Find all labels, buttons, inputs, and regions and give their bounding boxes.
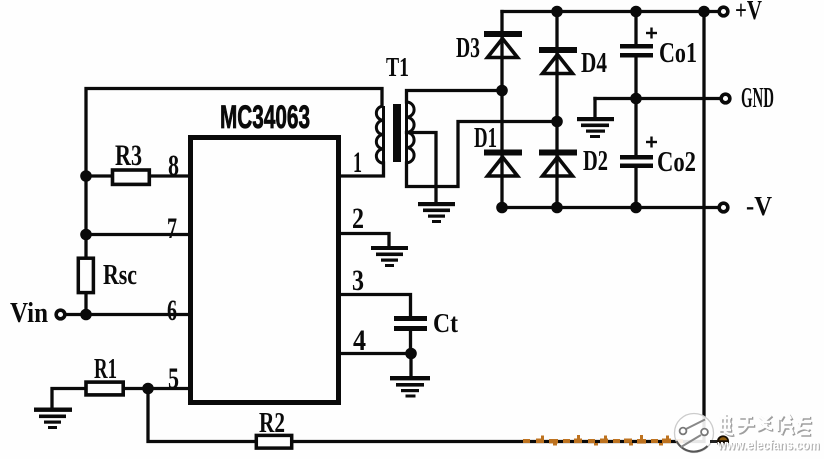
capacitor Co2 plus sign: [646, 137, 657, 148]
node junction Vin: [80, 309, 92, 321]
terminal +V: [719, 7, 728, 16]
svg-text:Ct: Ct: [433, 308, 458, 338]
wire pin8 lead left: [86, 174, 112, 177]
wire pin2 to ground: [339, 234, 389, 248]
node junction pin4 Ct: [405, 348, 417, 360]
wire Co1 top lead: [634, 12, 637, 45]
capacitor Ct: [394, 316, 427, 331]
svg-text:2: 2: [352, 202, 364, 235]
capacitor Co1: [620, 44, 653, 58]
diode D3: [484, 31, 522, 58]
wire D4 D2 column: [555, 12, 558, 208]
svg-text:3: 3: [352, 264, 364, 297]
wire pin4: [339, 352, 411, 355]
svg-text:R3: R3: [115, 139, 142, 172]
wire pin1 to primary: [339, 163, 384, 176]
transformer T1 primary winding: [376, 106, 383, 163]
svg-text:MC34063: MC34063: [220, 99, 310, 135]
node junction Co1 GND: [630, 93, 642, 105]
resistor R3: [113, 170, 150, 184]
svg-text:D1: D1: [474, 122, 497, 154]
watermark text elecfans chinese: [720, 415, 812, 435]
svg-text:Co1: Co1: [659, 38, 697, 69]
wire pin3 to Ct: [339, 295, 411, 317]
svg-text:5: 5: [168, 362, 179, 395]
node junction secondary bottom D2: [551, 116, 563, 128]
svg-text:+V: +V: [735, 0, 762, 25]
wire R1 left lead and ground drop: [52, 389, 86, 409]
svg-text:Rsc: Rsc: [103, 259, 137, 291]
wire pin5 junction down: [148, 389, 255, 442]
wire Co1 bottom lead: [634, 58, 637, 99]
node junction Co2 bottom: [630, 202, 642, 214]
svg-text:GND: GND: [741, 83, 774, 114]
resistor R2: [256, 435, 291, 448]
wire GND ground stem: [593, 99, 596, 119]
capacitor Co2: [620, 155, 653, 168]
svg-text:8: 8: [168, 149, 179, 182]
wire pin6 Vin: [64, 313, 190, 316]
svg-text:D2: D2: [583, 145, 608, 177]
svg-text:1: 1: [353, 146, 362, 179]
wire pin8 lead right: [149, 174, 190, 177]
wire Ct bottom: [409, 331, 412, 354]
node junction feedback top: [698, 6, 710, 18]
wire D3 D1 column: [500, 12, 503, 208]
ground below R1: [34, 408, 72, 430]
node junction R3 left: [80, 170, 92, 182]
svg-text:Vin: Vin: [10, 298, 48, 329]
svg-text:Co2: Co2: [657, 147, 696, 178]
IC U1 MC34063 body: [191, 138, 339, 403]
svg-text:D4: D4: [581, 47, 607, 79]
resistor Rsc: [78, 258, 93, 292]
terminal Vin: [56, 310, 65, 319]
wire secondary top to D3 junction: [407, 91, 503, 103]
wire pin7: [86, 233, 190, 236]
node junction D1 bottom: [496, 202, 508, 214]
node junction D4 top: [551, 6, 563, 18]
watermark logo circle: [675, 414, 730, 453]
wire Co2 bottom lead: [634, 168, 637, 208]
transformer T1 secondary winding: [407, 102, 415, 163]
wire pin5 lead: [124, 387, 190, 390]
wire top-left loop: [86, 89, 382, 315]
capacitor Co1 plus sign: [646, 28, 657, 39]
node junction pin5: [142, 383, 154, 395]
diode D4: [539, 47, 577, 74]
svg-text:-V: -V: [746, 191, 772, 221]
wire top +V rail: [502, 10, 722, 13]
svg-text:R2: R2: [259, 407, 285, 439]
terminal GND: [721, 94, 730, 103]
wire Co2 top lead: [634, 99, 637, 156]
ground at pin4: [390, 376, 430, 398]
ground at GND rail: [577, 117, 614, 138]
diode D1: [484, 150, 522, 177]
node junction Co1 top: [630, 6, 642, 18]
diode D2: [539, 150, 577, 177]
watermark orange fragments: [523, 435, 683, 446]
ground at T1 center tap: [418, 202, 455, 223]
ground at pin2: [371, 246, 408, 267]
svg-text:R1: R1: [94, 353, 117, 385]
wire secondary bottom to D2 junction: [407, 122, 558, 187]
svg-text:T1: T1: [386, 52, 409, 82]
svg-text:4: 4: [353, 324, 366, 357]
node junction secondary top D3: [496, 85, 508, 97]
terminal -V: [719, 203, 728, 212]
svg-text:7: 7: [167, 212, 177, 245]
svg-text:6: 6: [167, 294, 177, 327]
svg-text:www.elecfans.com: www.elecfans.com: [717, 437, 820, 453]
node junction pin7: [80, 229, 92, 241]
wire GND rail: [595, 97, 724, 100]
wire -V rail: [502, 206, 722, 209]
resistor R1: [86, 382, 123, 395]
node junction D2 bottom: [551, 202, 563, 214]
transformer T1 core: [393, 104, 401, 162]
wire secondary center tap: [407, 133, 437, 204]
wire pin4 ground stem: [409, 354, 412, 377]
svg-text:D3: D3: [456, 32, 480, 64]
wire bottom feedback: [293, 12, 704, 442]
